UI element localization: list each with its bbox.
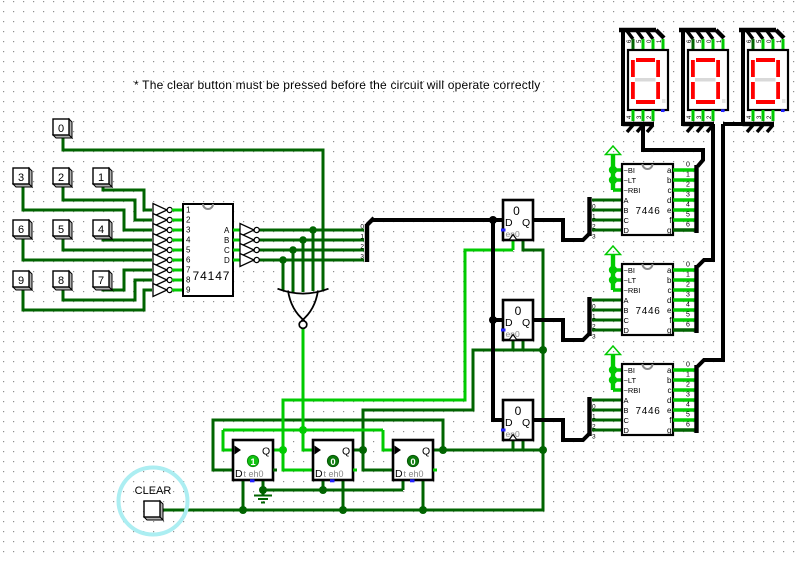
wire button7 to inverter 7: [103, 270, 152, 290]
inverter IN4: [153, 234, 183, 247]
wire C to splitter bit2: [259, 249, 364, 252]
7446 chip U4 + splitter: [606, 346, 697, 435]
svg-text:0: 0: [515, 304, 522, 318]
svg-text:Q: Q: [342, 446, 350, 458]
svg-text:1: 1: [98, 172, 104, 184]
wire B to splitter bit1: [259, 239, 364, 242]
splitter R1.Q to 7446#1 inputs: [590, 197, 623, 241]
inverter IN7: [153, 264, 183, 277]
wire FF1.Q to top register clock: [283, 240, 513, 450]
junction NOR tap C: [289, 246, 297, 254]
bus bottom register Q to splitter: [533, 420, 590, 440]
button 2: [53, 168, 72, 187]
button 7: [93, 271, 112, 290]
display DS3: [739, 30, 788, 132]
CLEAR button: [144, 501, 163, 520]
svg-text:C: C: [224, 246, 230, 255]
svg-text:Q: Q: [262, 446, 270, 458]
wire middle register enable stub: [522, 340, 525, 350]
svg-text:3: 3: [18, 172, 24, 184]
svg-text:Q: Q: [522, 217, 530, 229]
display DS1: [619, 30, 668, 132]
svg-text:t eh0: t eh0: [324, 469, 344, 479]
7446 chip U3 + splitter: [606, 246, 697, 335]
wire ground rail: [263, 489, 403, 492]
splitter R2.Q to 7446#2 inputs: [590, 297, 623, 341]
wire button0 to NOR input 5: [63, 136, 323, 290]
junction FF3 clear: [419, 506, 427, 514]
wire middle register clock stub: [512, 340, 515, 350]
svg-text:5: 5: [58, 224, 64, 236]
svg-text:0: 0: [58, 123, 64, 135]
bus display2 to 7446 #2: [698, 124, 714, 267]
svg-text:D: D: [505, 317, 513, 329]
svg-text:8: 8: [58, 275, 64, 287]
wire NOR output to FF2 clock: [303, 328, 313, 450]
svg-text:2: 2: [592, 224, 596, 231]
svg-text:D: D: [235, 468, 243, 480]
wire FF clock rail: [223, 429, 383, 432]
CLEAR button halo: [119, 468, 188, 535]
svg-text:t eh0: t eh0: [244, 469, 264, 479]
svg-text:0: 0: [330, 457, 335, 468]
svg-text:7: 7: [186, 266, 191, 275]
svg-text:1: 1: [250, 457, 256, 468]
wire button9 to inverter 9: [23, 288, 152, 310]
inverter IN8: [153, 274, 183, 287]
svg-text:9: 9: [18, 275, 24, 287]
svg-text:D: D: [505, 217, 513, 229]
junction bottom register clock rail: [539, 446, 547, 454]
flip-flop FF2: [313, 440, 357, 482]
svg-text:Q: Q: [522, 317, 530, 329]
inverter IN5: [153, 244, 183, 257]
wire FF2 clear stub: [342, 480, 345, 510]
svg-text:1: 1: [186, 206, 191, 215]
inverter IN2: [153, 214, 183, 227]
svg-text:2: 2: [592, 424, 596, 431]
svg-text:3: 3: [360, 254, 364, 261]
NOR gate: [278, 289, 329, 329]
svg-text:9: 9: [186, 286, 191, 295]
wire FF1 ground stub: [262, 480, 265, 490]
wire clock rail to FF3 clock: [383, 430, 393, 450]
svg-text:0: 0: [515, 404, 522, 418]
wire NOR tap C: [292, 250, 295, 292]
wire FF2.Q to middle register clock rail: [363, 350, 543, 450]
svg-text:3: 3: [592, 334, 596, 341]
svg-text:0: 0: [513, 204, 520, 218]
button 4: [93, 220, 112, 239]
svg-text:1: 1: [592, 414, 596, 421]
register R3 (bottom): [501, 400, 533, 440]
inverter IN1: [153, 204, 183, 217]
wire button5 to inverter 5: [63, 236, 152, 250]
svg-text:3: 3: [592, 234, 596, 241]
button 8: [53, 271, 72, 290]
wire button6 to inverter 6: [23, 236, 152, 260]
svg-text:CLEAR: CLEAR: [135, 485, 172, 497]
svg-text:6: 6: [18, 224, 24, 236]
junction NOR output clock rail: [299, 426, 307, 434]
splitter R3.Q to 7446#3 inputs: [590, 397, 623, 441]
svg-text:B: B: [224, 236, 229, 245]
register R1 (top): [501, 200, 533, 240]
inverter OUTC: [233, 244, 259, 257]
wire FF3 ground stub: [402, 480, 405, 490]
inverter IN3: [153, 224, 183, 237]
svg-text:1: 1: [592, 214, 596, 221]
svg-text:2: 2: [58, 172, 64, 184]
junction FF1 clear: [239, 506, 247, 514]
wire FF3 clear stub: [422, 480, 425, 510]
button 5: [53, 220, 72, 239]
bus splitter to top register D: [373, 218, 503, 222]
junction FF3.Q: [439, 446, 447, 454]
inverter OUTD: [233, 254, 259, 267]
svg-text:4: 4: [98, 224, 104, 236]
svg-text:74147: 74147: [193, 269, 231, 283]
bus middle register Q to splitter: [533, 320, 590, 340]
junction NOR tap B: [299, 236, 307, 244]
svg-text:0: 0: [592, 304, 596, 311]
splitter bus4 left: [360, 218, 374, 262]
svg-text:3: 3: [186, 226, 191, 235]
svg-text:7: 7: [98, 275, 104, 287]
ground: [254, 490, 272, 503]
svg-text:0: 0: [592, 204, 596, 211]
wire FF3.Q rail to x543: [443, 449, 543, 452]
wire bottom register enable stub: [522, 440, 525, 450]
bus display1 to 7446 #1: [643, 124, 703, 167]
svg-text:4: 4: [186, 236, 191, 245]
svg-text:1: 1: [360, 234, 364, 241]
junction NOR tap D: [279, 256, 287, 264]
svg-text:* The clear button must be pre: * The clear button must be pressed befor…: [134, 78, 541, 92]
button 1: [93, 168, 112, 187]
register R2 (middle): [501, 300, 533, 340]
svg-text:1: 1: [592, 314, 596, 321]
button 0: [53, 119, 72, 138]
svg-text:6: 6: [186, 256, 191, 265]
wire FF2.Q to FF3.D: [353, 450, 393, 470]
svg-text:2: 2: [186, 216, 191, 225]
bus display1 left riser: [621, 31, 625, 126]
wire FF1 clear stub: [242, 480, 245, 510]
svg-text:0: 0: [410, 457, 415, 468]
junction FF2.Q: [359, 446, 367, 454]
wire button4 to inverter 4: [103, 236, 152, 240]
wire FF3.Q to FF1.D: [213, 420, 443, 470]
wire D to splitter bit3: [259, 259, 364, 262]
svg-text:2: 2: [360, 244, 364, 251]
inverter IN9: [153, 284, 183, 297]
svg-text:0: 0: [592, 404, 596, 411]
wire button3 to inverter 3: [23, 186, 152, 230]
wire button8 to inverter 8: [63, 280, 152, 300]
7446 chip U2 + splitter: [606, 146, 697, 235]
wire FF1.Q stub: [273, 449, 283, 452]
wire FF2 ground stub: [322, 480, 325, 490]
bus top register Q to splitter: [533, 220, 590, 240]
svg-text:3: 3: [592, 434, 596, 441]
svg-text:D: D: [315, 468, 323, 480]
svg-text:A: A: [224, 226, 230, 235]
wire NOR tap D: [282, 260, 285, 291]
wire FF1.Q to FF2.D: [283, 450, 313, 470]
wire top register enable to x543 vertical: [161, 240, 543, 510]
junction FF1 ground: [259, 486, 267, 494]
flip-flop FF1: [233, 440, 277, 482]
bus display3 left riser: [723, 31, 744, 126]
svg-text:5: 5: [186, 246, 191, 255]
svg-text:8: 8: [186, 276, 191, 285]
wire bottom register clock stub: [512, 440, 515, 450]
wire button1 to inverter 1: [103, 186, 152, 210]
bus display3 to 7446 #3: [698, 124, 724, 367]
button 6: [13, 220, 32, 239]
junction bus top register D: [489, 216, 497, 224]
junction middle register clock rail: [539, 346, 547, 354]
inverter IN6: [153, 254, 183, 267]
inverter OUTB: [233, 234, 259, 247]
svg-text:Q: Q: [422, 446, 430, 458]
svg-text:t eh0: t eh0: [404, 469, 424, 479]
junction NOR tap A: [309, 226, 317, 234]
display DS2: [679, 30, 728, 132]
flip-flop FF3: [393, 440, 437, 482]
junction bus middle register D: [489, 316, 497, 324]
junction FF1.Q: [279, 446, 287, 454]
svg-text:Q: Q: [522, 417, 530, 429]
wire NOR tap B: [302, 240, 305, 292]
wire NOR tap A: [312, 230, 315, 291]
inverter OUTA: [233, 224, 259, 237]
bus vertical to middle and bottom register D: [493, 220, 503, 420]
wire button2 to inverter 2: [63, 186, 152, 220]
junction FF2 ground: [319, 486, 327, 494]
button 3: [13, 168, 32, 187]
svg-text:0: 0: [360, 224, 364, 231]
wire clock rail to FF1 clock: [223, 430, 233, 450]
button 9: [13, 271, 32, 290]
bus display2 left riser: [681, 31, 685, 126]
svg-text:D: D: [505, 417, 513, 429]
74147 chip U1: [183, 204, 233, 296]
wire A to splitter bit0: [259, 229, 364, 232]
svg-text:2: 2: [592, 324, 596, 331]
svg-text:D: D: [395, 468, 403, 480]
svg-text:D: D: [224, 256, 230, 265]
junction FF2 clear: [339, 506, 347, 514]
bus stub middle register D: [493, 318, 503, 322]
